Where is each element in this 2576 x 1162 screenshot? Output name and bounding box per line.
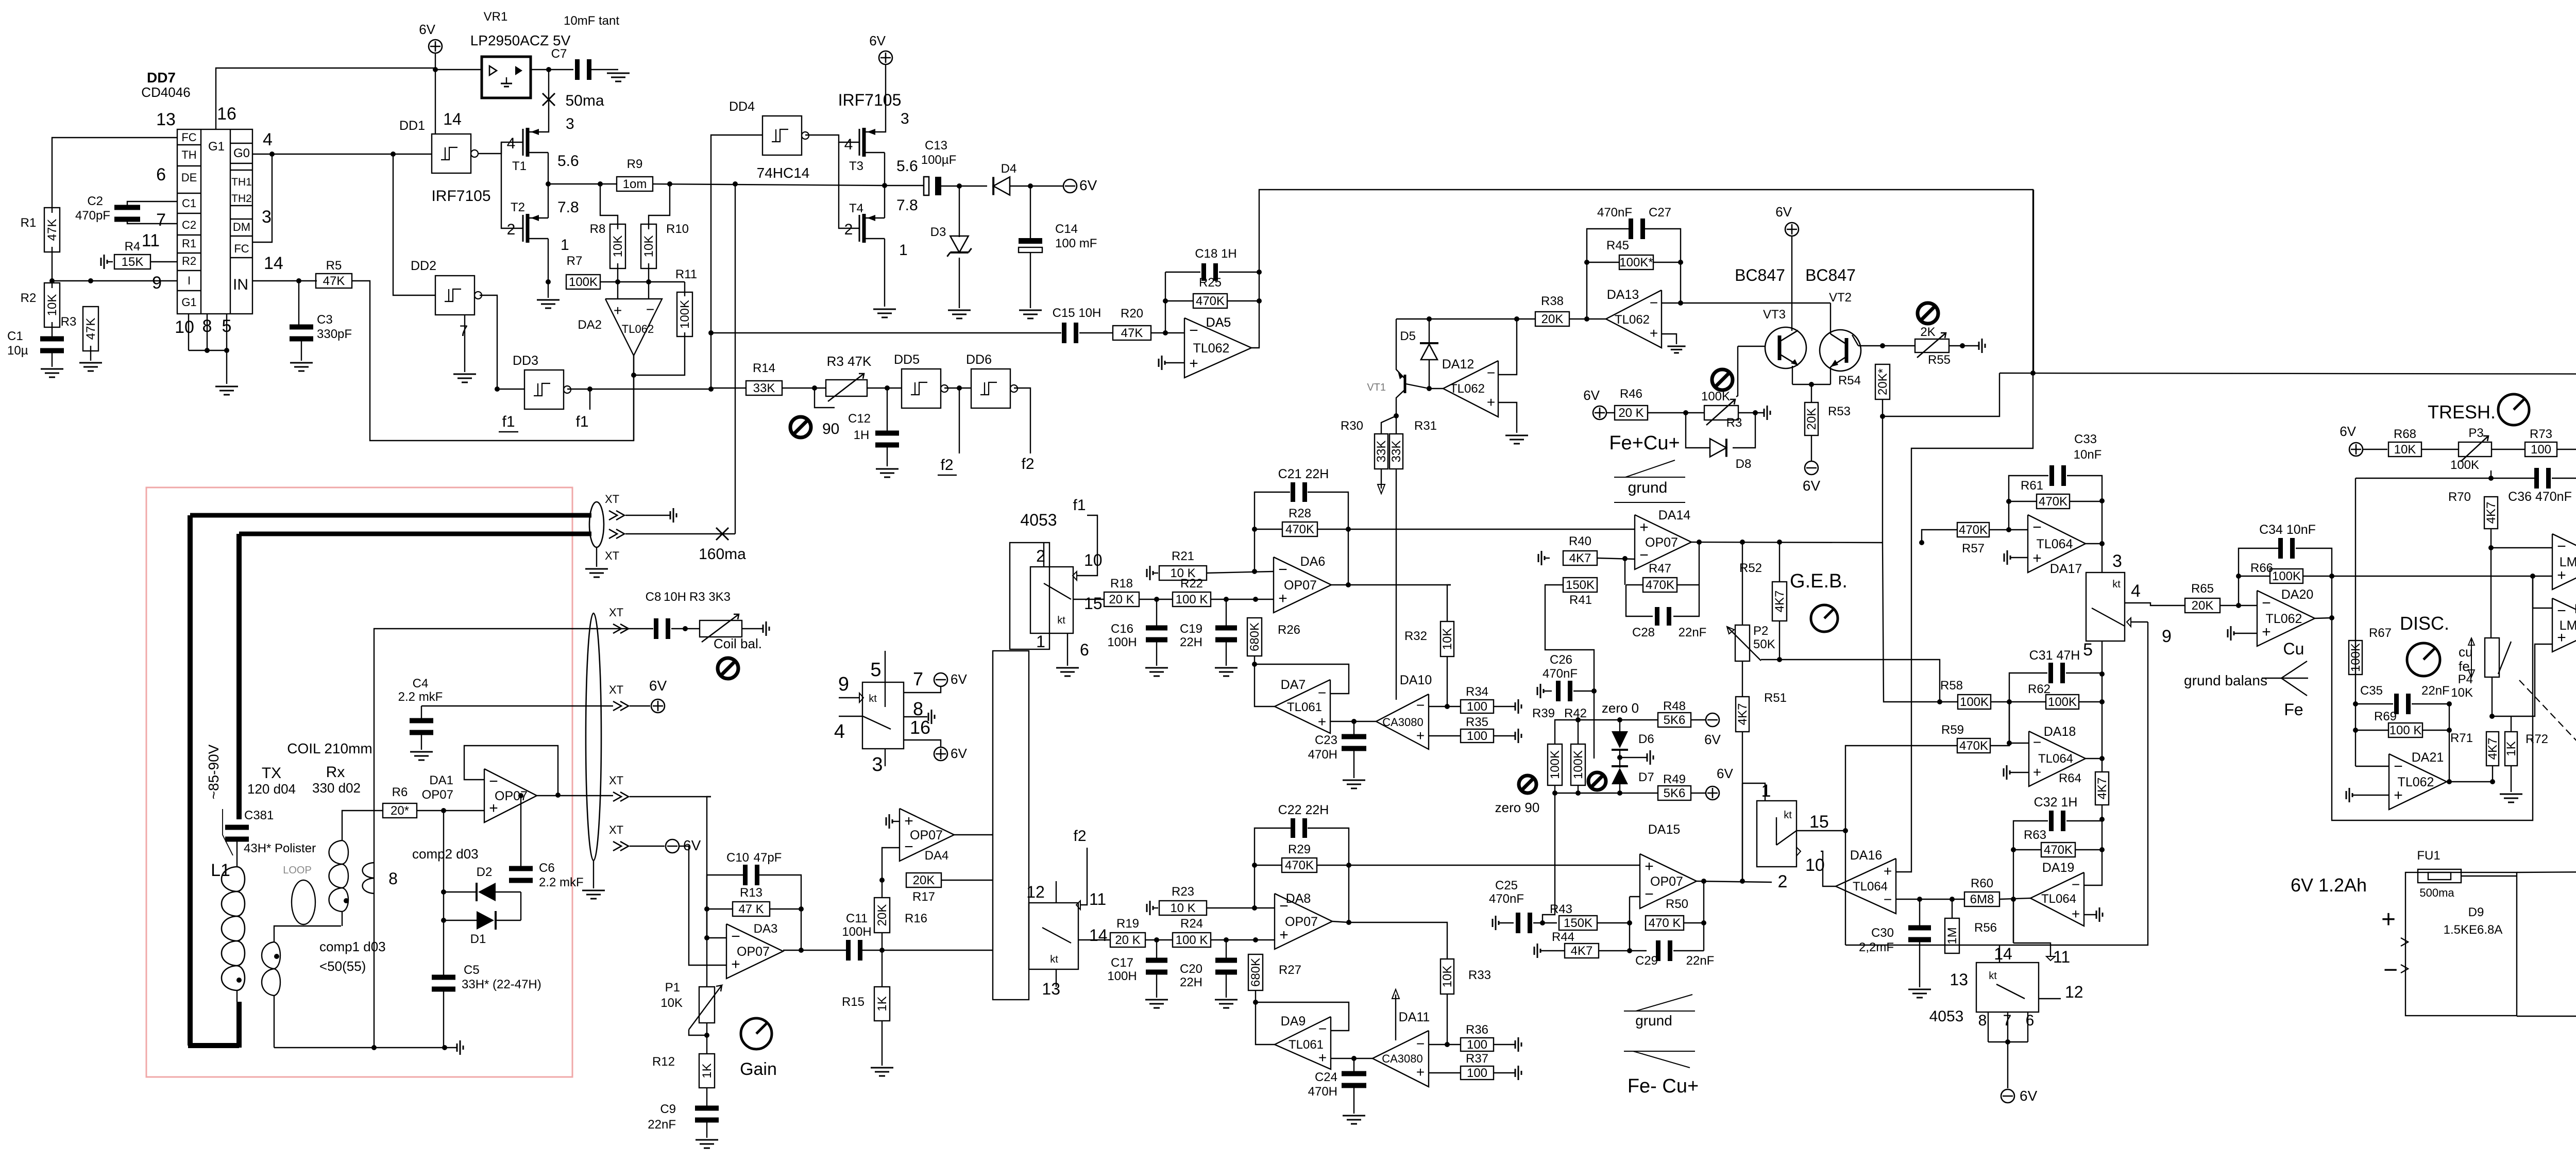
potentiometer R3b label [689, 590, 731, 604]
capacitor C3 label [317, 313, 352, 341]
node C35 left [2353, 701, 2358, 706]
op-amp DA14 name [1658, 508, 1691, 523]
wire fuse right [2461, 875, 2517, 877]
wire R33 bot [1447, 994, 1448, 1045]
wire D8 left [1686, 413, 1710, 448]
symbol no R55 [1918, 303, 1938, 324]
node R26 top [1253, 597, 1258, 602]
wire ktC pin9 [2131, 621, 2148, 622]
wire pointer [223, 809, 233, 855]
svg-text:−: − [2557, 538, 2566, 555]
capacitor C5 [432, 975, 455, 992]
wire R20-DA5 [1151, 332, 1184, 333]
svg-text:R16: R16 [905, 912, 927, 925]
wire R42 bot [1578, 785, 1579, 793]
svg-text:DD1: DD1 [399, 119, 425, 133]
op-amp DA23 name [2574, 602, 2576, 616]
svg-text:10K: 10K [45, 294, 59, 316]
svg-text:33K: 33K [753, 381, 775, 395]
wire R53 top [1811, 384, 1812, 402]
wire Rx bottom [342, 912, 343, 926]
node 50ma [546, 67, 551, 72]
wire R12 bot [706, 1088, 707, 1107]
svg-text:10K: 10K [2394, 443, 2416, 457]
node VT1 base [1427, 386, 1432, 391]
node Rx sense [344, 898, 349, 903]
symbol slope base [1614, 502, 1685, 503]
resistor R64 [2095, 772, 2109, 805]
wire R66 right [2303, 576, 2332, 577]
svg-text:TX: TX [262, 765, 281, 782]
knob DISC [2407, 643, 2440, 676]
wire VT2 base [1830, 303, 1831, 334]
gate DD1 pin14 label [443, 110, 462, 128]
node R61 left [2006, 499, 2011, 504]
resistor R52 label [1739, 561, 1762, 575]
svg-text:BC847: BC847 [1735, 266, 1785, 284]
svg-text:T1: T1 [512, 159, 527, 173]
resistor R31 [1389, 434, 1403, 469]
svg-text:D4: D4 [1001, 162, 1017, 176]
resistor R44 [1552, 930, 1599, 958]
svg-text:C35: C35 [2360, 684, 2383, 698]
svg-text:22nF: 22nF [2421, 684, 2450, 698]
earth D6 [1647, 750, 1653, 765]
wire fb up [707, 875, 744, 938]
wire pin10 [188, 314, 189, 350]
wire DA1p down [443, 811, 444, 976]
resistor R47 [1643, 562, 1677, 592]
ground D3 [948, 310, 971, 318]
wire DD4 out to gates [805, 135, 859, 142]
net label f1 underlined [499, 413, 518, 432]
wire R2 to C1 [52, 322, 53, 338]
switch sw1 arrow [1073, 571, 1077, 580]
capacitor C22 [1291, 818, 1307, 838]
svg-text:−: − [2033, 734, 2041, 750]
svg-text:14: 14 [443, 110, 462, 128]
svg-text:LP2950ACZ 5V: LP2950ACZ 5V [470, 32, 571, 48]
resistor R49 [1658, 772, 1691, 800]
node R33 bot [1445, 1042, 1450, 1047]
wire T1 src to T2 drain [548, 153, 549, 218]
wire coil thick TX [236, 534, 242, 819]
svg-text:R18: R18 [1110, 577, 1133, 591]
node DA8 out [1346, 920, 1351, 925]
capacitor C7 label [551, 14, 620, 61]
svg-text:33K: 33K [1375, 441, 1388, 463]
svg-text:6V: 6V [1803, 478, 1821, 494]
net label f1 [575, 413, 588, 430]
svg-text:XT: XT [609, 774, 623, 787]
label R39 R42 [1532, 706, 1587, 720]
wire DA20 fb right [2331, 576, 2332, 618]
capacitor C21 label [1278, 467, 1329, 481]
wire R33 top [1349, 922, 1447, 959]
node DA14 minus [1622, 556, 1628, 561]
wire DA15 out [1697, 881, 1772, 882]
svg-text:R8: R8 [590, 222, 606, 236]
wire R70 bot [2490, 529, 2492, 548]
op-amp DA9 [1275, 1014, 1331, 1069]
resistor R54 label [1838, 374, 1861, 388]
wire DA7 out [1255, 664, 1275, 706]
wire R47 right [1677, 584, 1699, 585]
wire T3 src [884, 153, 885, 218]
label 6V R49 [1717, 766, 1733, 781]
supply -6V kt7 [934, 673, 947, 686]
node R29 left [1252, 863, 1257, 868]
wire to gnd T2 [548, 282, 549, 298]
svg-text:comp2 d03: comp2 d03 [412, 846, 479, 862]
resistor R24 [1173, 917, 1211, 947]
node DA22 minus [2488, 545, 2494, 550]
wire R19-R24 [1145, 939, 1173, 940]
svg-text:6V: 6V [2020, 1088, 2038, 1104]
resistor R41 label [1569, 593, 1592, 607]
diode D5 [1400, 329, 1438, 360]
wire R28 right [1317, 529, 1348, 530]
op-amp DA20 name [2281, 587, 2314, 602]
node C23 top [1351, 719, 1357, 724]
wire R66 left [2239, 576, 2270, 577]
svg-text:1K: 1K [700, 1063, 714, 1078]
label 6V 1.2Ah [2291, 874, 2367, 896]
wire C33 left [2009, 476, 2048, 530]
wire VT3 emitter [1792, 366, 1793, 384]
svg-text:−: − [2072, 877, 2080, 892]
svg-text:R15: R15 [842, 995, 865, 1009]
svg-text:DA4: DA4 [925, 849, 949, 863]
resistor R54 [1875, 364, 1890, 399]
svg-text:IRF7105: IRF7105 [838, 91, 902, 109]
capacitor C20 label [1180, 962, 1202, 989]
wire DA5 plus [1165, 362, 1184, 363]
node f1 b [708, 386, 714, 392]
wire C1 to gnd [52, 352, 53, 367]
svg-text:BC847: BC847 [1805, 266, 1856, 284]
wire DA9 plus [1331, 1058, 1372, 1059]
svg-text:CA3080: CA3080 [1382, 716, 1423, 729]
capacitor C23 label [1308, 733, 1337, 762]
ground T2 [537, 300, 560, 308]
resistor R52 [1772, 582, 1787, 621]
svg-text:−: − [1884, 891, 1892, 907]
op-amp DA13 [1606, 288, 1662, 348]
node R69 left [2353, 728, 2358, 733]
resistor R56 [1945, 918, 1959, 953]
resistor R39 [1548, 744, 1562, 785]
svg-text:R12: R12 [652, 1055, 675, 1069]
node T1T2 [546, 181, 551, 187]
connector XT6 [609, 529, 624, 538]
earth R35 [1515, 729, 1521, 743]
svg-text:74HC14: 74HC14 [757, 165, 810, 181]
earth DA18 [2004, 765, 2010, 780]
resistor R72 [2504, 732, 2518, 766]
svg-text:DA9: DA9 [1281, 1014, 1306, 1029]
node DA8 minus [1252, 905, 1257, 911]
svg-text:4K7: 4K7 [2095, 778, 2109, 800]
capacitor C35 label [2360, 684, 2450, 698]
svg-text:+: + [1189, 355, 1198, 372]
node C14 [1028, 183, 1033, 189]
wire C15-R20 [1079, 332, 1113, 333]
resistor R25 [1193, 276, 1227, 308]
capacitor C26 label [1543, 653, 1578, 681]
wire R27 bot [1255, 990, 1256, 1002]
op-amp DA10 [1376, 673, 1432, 749]
switch kt sw3 [1929, 945, 2083, 1029]
svg-text:10: 10 [1805, 855, 1825, 875]
fuse FU1 [2417, 849, 2461, 899]
svg-text:R67: R67 [2369, 626, 2392, 640]
wire DA16 plus [1896, 190, 2033, 872]
svg-text:R49: R49 [1663, 772, 1686, 786]
svg-text:IN: IN [233, 276, 248, 293]
capacitor C381 [225, 825, 249, 842]
svg-text:C19: C19 [1180, 622, 1202, 636]
svg-text:DA10: DA10 [1400, 673, 1432, 687]
svg-text:C381: C381 [244, 809, 274, 822]
svg-text:2,2mF: 2,2mF [1859, 940, 1894, 954]
earth DA4 [886, 814, 892, 829]
svg-text:C1: C1 [7, 329, 23, 343]
svg-text:10K: 10K [2451, 686, 2473, 700]
node P3 wiper [2488, 476, 2494, 481]
wire C33 right [2067, 476, 2102, 544]
resistor R61 [2021, 479, 2070, 509]
supply 6V R49 [1706, 786, 1719, 800]
svg-text:grund balans: grund balans [2184, 672, 2267, 688]
svg-text:20K: 20K [1805, 408, 1819, 430]
svg-text:6V: 6V [1775, 204, 1792, 220]
loop ellipse [283, 865, 315, 924]
transistor T4 labels [844, 197, 918, 259]
node DD1 input [391, 151, 396, 157]
wire R47 left [1626, 584, 1643, 585]
svg-text:4K7: 4K7 [1571, 944, 1593, 958]
svg-text:TH: TH [181, 148, 196, 161]
wire sw2 pin12 [1056, 881, 1057, 903]
node fb DA13 [1584, 316, 1589, 322]
svg-text:R1: R1 [182, 237, 196, 250]
wire zero90 down [1543, 793, 1555, 923]
wire R60 right [1999, 898, 2030, 899]
op-amp DA2 [578, 299, 662, 356]
wire batt plus rail [2517, 870, 2576, 872]
wire sw3 bot3 [2027, 1012, 2028, 1042]
label comp1 [319, 939, 386, 974]
svg-text:R44: R44 [1552, 930, 1574, 944]
wire zero bot [1554, 785, 1555, 793]
switch kt sw2 [1026, 883, 1107, 998]
svg-text:OP07: OP07 [422, 788, 453, 802]
wire R61 right [2070, 501, 2102, 502]
earth C26 [1537, 684, 1544, 698]
wire P1 wiper [689, 1030, 707, 1035]
node C15 branch [708, 330, 714, 335]
node R29 right [1346, 863, 1351, 868]
svg-text:+: + [614, 302, 622, 318]
svg-text:22nF: 22nF [1679, 626, 1707, 639]
wire VR1 out [531, 69, 573, 70]
wire junction to DD7 pin9 [52, 280, 177, 281]
arrow R30 [1378, 469, 1385, 494]
svg-text:Cu: Cu [2283, 639, 2304, 658]
svg-text:14: 14 [264, 254, 283, 273]
node f1 a [587, 386, 592, 392]
svg-text:+: + [1639, 519, 1649, 536]
gate DD2 [411, 259, 482, 315]
wire R29 left [1255, 865, 1281, 866]
ground DA12 [1505, 435, 1528, 444]
wire D5 top [1429, 319, 1430, 343]
svg-text:47K: 47K [1121, 326, 1143, 340]
capacitor C12 label [848, 412, 871, 442]
capacitor C381 label [244, 809, 316, 855]
earth R23 [1147, 901, 1153, 915]
resistor R70 label [2448, 490, 2471, 504]
wire to C13 [885, 185, 924, 186]
wire R49 right [1691, 793, 1705, 794]
svg-text:C16: C16 [1111, 622, 1133, 636]
wire P1 top [706, 938, 707, 987]
svg-text:470K: 470K [1959, 739, 1988, 753]
label Gain [740, 1059, 777, 1079]
ground C14 [1019, 310, 1042, 318]
svg-text:DE: DE [181, 171, 197, 184]
wire R10 top [649, 184, 670, 229]
label zero 0 [1602, 700, 1639, 716]
wire G0 to DD2 [393, 154, 435, 295]
wire ktB pin2 out [1742, 783, 1743, 881]
svg-text:−: − [1318, 1021, 1327, 1037]
svg-text:90: 90 [822, 420, 839, 437]
resistor R51 [1736, 697, 1750, 732]
svg-text:12: 12 [1026, 883, 1045, 901]
svg-text:22nF: 22nF [1686, 954, 1715, 968]
wire D7 bot [1619, 784, 1620, 793]
earth DA20 [2228, 626, 2234, 641]
label L1 [211, 861, 230, 880]
svg-text:10µ: 10µ [7, 344, 28, 358]
wire R58 left [1883, 543, 1958, 702]
transistor T4 [859, 214, 885, 243]
node R27 top [1253, 937, 1258, 942]
wire VR1 to T1 [548, 70, 549, 132]
wire DA15 minus in [1630, 896, 1640, 897]
node P2 top [1740, 540, 1745, 545]
wire DA21 out [2447, 781, 2493, 782]
wire C4 top [421, 706, 422, 719]
svg-text:6V: 6V [951, 671, 967, 687]
wire DA7 plus [1330, 721, 1376, 722]
svg-text:FC: FC [234, 242, 249, 255]
svg-text:R65: R65 [2191, 582, 2214, 596]
resistor R30 [1375, 434, 1388, 469]
svg-text:150K: 150K [1566, 578, 1595, 592]
svg-text:C18 1H: C18 1H [1195, 247, 1236, 261]
wire VT2 coll row [1858, 345, 1916, 346]
resistor R33 label [1468, 968, 1491, 982]
capacitor C4 label [398, 677, 443, 704]
node P1 wiper [704, 1033, 709, 1038]
wire 6V to DD1 [435, 70, 436, 134]
wire down to disc row [2033, 190, 2034, 373]
wire sw3 bot1 [1988, 1012, 1989, 1042]
wire C28 right [1673, 542, 1699, 616]
resistor R45 [1606, 239, 1653, 270]
svg-text:1H: 1H [854, 428, 870, 442]
wire ktC pin9 riser [1845, 622, 2148, 945]
wire earth C25 [1499, 922, 1514, 923]
node G0 [269, 151, 275, 157]
wire P2 top [1742, 542, 1743, 625]
wire C27 right [1642, 229, 1681, 303]
wire R48 right [1691, 719, 1705, 720]
capacitor C19 label [1180, 622, 1202, 649]
svg-text:−: − [2557, 602, 2566, 619]
svg-text:R31: R31 [1414, 419, 1437, 433]
svg-text:100µF: 100µF [921, 153, 957, 167]
svg-text:100: 100 [1467, 1038, 1487, 1052]
svg-text:T4: T4 [849, 201, 863, 215]
svg-text:OP07: OP07 [910, 828, 943, 843]
switch kt B [1757, 781, 1829, 891]
resistor R50 [1646, 897, 1688, 930]
wire R9 right [653, 184, 886, 186]
wire C35 left [2355, 703, 2393, 704]
svg-text:C24: C24 [1315, 1070, 1337, 1084]
potentiometer P2 arrow [1727, 627, 1761, 661]
svg-text:−: − [731, 928, 740, 945]
transistor T2 [523, 214, 548, 243]
label f2 4053 [1073, 828, 1086, 845]
wire D5 bot [1429, 360, 1430, 389]
switch kt A arrow [859, 693, 863, 702]
svg-text:DA5: DA5 [1206, 315, 1231, 330]
node DA7 fb [1252, 662, 1257, 667]
svg-text:f1: f1 [575, 413, 588, 430]
wire pin6 [127, 201, 177, 206]
wire coil thick left [188, 515, 193, 1046]
op-amp DA21 name [2412, 750, 2444, 765]
wire G0 net [252, 154, 393, 155]
wire Rx top [342, 811, 374, 840]
capacitor C2 label [75, 194, 110, 223]
svg-text:Gain: Gain [740, 1059, 777, 1079]
node pin8 [205, 348, 210, 353]
resistor R30 label [1341, 419, 1363, 433]
wire C31 right [2066, 672, 2102, 673]
svg-text:D2: D2 [477, 865, 493, 879]
capacitor C31 label [2029, 648, 2080, 663]
wire C23 gnd [1353, 750, 1354, 778]
svg-text:LM393: LM393 [2560, 618, 2576, 633]
svg-text:−: − [1189, 322, 1198, 339]
node R3 right [1753, 410, 1758, 415]
wire R54 down [1882, 416, 1883, 543]
svg-text:6V: 6V [683, 837, 701, 853]
svg-text:15K: 15K [122, 255, 144, 269]
ground C3 [290, 363, 313, 371]
node D7 bot [1617, 790, 1622, 796]
resistor R58 [1940, 679, 1991, 709]
capacitor C33 label [2074, 432, 2102, 462]
svg-text:−: − [2032, 519, 2042, 536]
capacitor C1 label [7, 329, 28, 358]
